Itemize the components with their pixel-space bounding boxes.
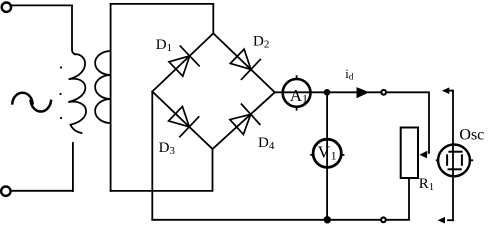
svg-text:Osc: Osc	[459, 127, 484, 144]
